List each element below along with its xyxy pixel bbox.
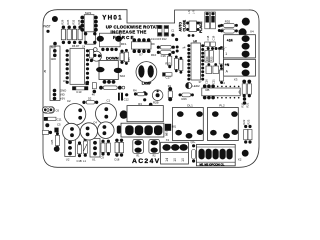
svg-text:881: 881 <box>172 125 177 129</box>
svg-text:C4: C4 <box>93 120 97 124</box>
svg-text:10: 10 <box>173 158 177 162</box>
svg-text:+24: +24 <box>227 39 233 43</box>
resistor R9 <box>151 42 175 49</box>
svg-text:C6: C6 <box>56 109 60 113</box>
resistor D18a <box>115 139 119 157</box>
capacitor C9 <box>101 140 106 160</box>
svg-text:PL2: PL2 <box>219 104 225 108</box>
pad row dot <box>53 42 57 46</box>
svg-text:C15: C15 <box>128 57 131 62</box>
bridge RF1 <box>97 33 127 47</box>
pads left of U6 <box>176 46 179 49</box>
svg-text:M1 M2 OPCON CL: M1 M2 OPCON CL <box>200 162 225 166</box>
inductor L1 <box>83 138 87 163</box>
labels GND VID +5V <box>60 89 66 101</box>
svg-text:CLOSE: CLOSE <box>183 19 187 31</box>
svg-text:RB: RB <box>206 88 210 92</box>
IC U6 <box>187 40 204 85</box>
svg-text:L-R: L-R <box>193 10 196 14</box>
svg-text:X4: X4 <box>250 30 254 34</box>
IC U7 <box>132 38 152 56</box>
capacitor C22 <box>219 67 223 84</box>
mounting hole H5 <box>242 150 249 157</box>
text AUTO CLOSE vertical <box>179 19 187 31</box>
svg-text:PLACE: PLACE <box>199 21 203 33</box>
switch SW2 <box>80 11 97 32</box>
svg-text:D2: D2 <box>88 97 92 101</box>
svg-text:LAMP: LAMP <box>142 82 152 86</box>
resistor R21 <box>246 80 252 108</box>
mounting hole H3 <box>239 28 247 36</box>
resistor R29 <box>60 19 65 44</box>
svg-text:SF2: SF2 <box>120 74 126 78</box>
svg-text:U7: U7 <box>139 52 143 56</box>
svg-text:U1: U1 <box>92 158 96 162</box>
resistor D18b <box>115 139 124 162</box>
resistor RD2 <box>220 20 238 28</box>
svg-text:C18: C18 <box>206 35 210 40</box>
svg-text:R6 R7: R6 R7 <box>72 44 80 48</box>
capacitor C17 <box>163 73 173 80</box>
capacitor C3b <box>51 132 59 148</box>
capacitor C13 <box>72 86 88 94</box>
terminal X3 <box>224 59 256 76</box>
capacitor C1 big <box>96 99 117 125</box>
svg-text:R29: R29 <box>60 19 64 24</box>
transistor Q3 <box>92 51 102 61</box>
svg-text:LED2: LED2 <box>192 84 200 88</box>
svg-text:C9: C9 <box>101 156 105 160</box>
svg-text:C1B: C1B <box>77 159 82 163</box>
svg-text:U2: U2 <box>66 158 70 162</box>
svg-text:R32: R32 <box>72 19 76 24</box>
capacitor C19 <box>211 12 216 46</box>
svg-text:DOWN: DOWN <box>106 55 119 60</box>
svg-text:AC24V: AC24V <box>132 158 160 165</box>
capacitor C15 <box>124 49 131 65</box>
opto U8 square <box>186 10 199 43</box>
capacitor C2 big <box>64 99 86 125</box>
svg-text:R2B: R2B <box>153 100 159 104</box>
svg-text:Q2+: Q2+ <box>191 140 196 144</box>
svg-text:J5: J5 <box>43 70 47 74</box>
pad below PAST <box>46 30 49 33</box>
resistor R14 <box>179 57 183 74</box>
svg-text:R25: R25 <box>209 56 213 61</box>
svg-text:YH01: YH01 <box>102 15 123 22</box>
svg-text:C1: C1 <box>107 99 111 103</box>
svg-text:U4: U4 <box>221 81 225 85</box>
pad P2 <box>143 91 146 94</box>
text UP CLOCKWISE ROTATE INCREASE THE FORCE <box>106 24 162 39</box>
svg-text:X1: X1 <box>166 138 170 142</box>
resistor RD3 <box>220 29 244 33</box>
resistor C7 <box>89 48 97 63</box>
resistor R4 <box>133 88 210 96</box>
svg-text:RF1: RF1 <box>121 42 127 46</box>
resistor R23 <box>247 119 253 143</box>
svg-text:C5: C5 <box>57 122 61 126</box>
svg-text:R4: R4 <box>133 88 137 92</box>
terminal X1 <box>161 138 189 164</box>
terminal X4 <box>224 35 256 58</box>
relay DL1 <box>173 104 204 141</box>
diode D1 <box>168 84 173 101</box>
resistor R3 power <box>127 102 163 122</box>
resistor R10 <box>151 51 175 58</box>
pads under SF2 <box>103 80 107 84</box>
connector U2 <box>65 137 76 162</box>
diode D4 <box>164 26 175 37</box>
pad hole small <box>45 123 49 127</box>
capacitor C5 big <box>57 122 80 140</box>
svg-text:C17: C17 <box>166 76 172 80</box>
svg-text:X3: X3 <box>234 78 238 82</box>
bridge DB2 <box>121 123 168 137</box>
svg-text:X2: X2 <box>238 158 242 162</box>
resistor R32 <box>72 19 77 44</box>
mounting hole H1 <box>52 16 58 22</box>
svg-text:C2B: C2B <box>51 139 54 144</box>
capacitor C1 tantalum <box>120 110 128 118</box>
svg-text:C21: C21 <box>211 79 215 84</box>
capacitor C21 <box>211 63 218 84</box>
connector J5 <box>43 46 60 101</box>
capacitor C7 tantalum <box>117 126 121 134</box>
bridge DB1 <box>165 124 177 137</box>
capacitor C4b big <box>98 122 115 139</box>
capacitor C12 <box>118 93 146 102</box>
mounting hole H4 <box>54 146 60 152</box>
svg-text:+: + <box>166 133 168 137</box>
triac SF2 <box>96 61 125 80</box>
svg-text:14: 14 <box>165 158 169 162</box>
relay DL2 <box>208 104 239 141</box>
capacitor C4 big <box>80 120 97 140</box>
svg-text:U8: U8 <box>194 39 198 43</box>
svg-text:R9: R9 <box>151 42 155 46</box>
pad P3 <box>75 104 79 108</box>
capacitor C20 <box>205 63 212 84</box>
transistor R2 <box>149 140 160 158</box>
board outline <box>43 10 259 168</box>
capacitor C18 <box>205 12 210 46</box>
lamp socket LAMP <box>136 62 157 86</box>
svg-text:DL1: DL1 <box>187 104 193 108</box>
svg-text:C2: C2 <box>67 99 71 103</box>
svg-text:C11: C11 <box>57 118 62 122</box>
resistor R25 <box>66 19 71 44</box>
svg-text:R26: R26 <box>182 97 188 101</box>
resistors R6 R7 labels <box>72 44 86 48</box>
resistor R22 <box>242 119 248 143</box>
transistor R1 <box>133 140 144 158</box>
svg-text:R25: R25 <box>66 19 70 24</box>
IC U4 <box>202 81 240 99</box>
svg-text:GND: GND <box>51 58 57 61</box>
resistor R8 <box>120 50 129 64</box>
svg-text:1: 1 <box>225 52 227 56</box>
svg-text:R13: R13 <box>165 61 171 65</box>
svg-text:C16: C16 <box>161 54 167 58</box>
capacitor D1B <box>106 140 110 156</box>
resistor R26 <box>179 93 194 101</box>
LED2 <box>186 83 200 89</box>
capacitor C2s <box>43 130 53 134</box>
svg-text:L-S: L-S <box>188 10 191 14</box>
svg-text:+N: +N <box>225 63 230 67</box>
resistor R13 <box>165 56 178 73</box>
svg-text:+5V: +5V <box>60 97 65 101</box>
capacitor C6 <box>42 107 59 114</box>
svg-text:FORCE: FORCE <box>113 35 135 40</box>
resistor R20 <box>240 80 246 108</box>
svg-text:PA5T: PA5T <box>51 46 57 49</box>
capacitor C16 <box>161 53 172 68</box>
capacitor C10 <box>77 141 82 162</box>
pads right of U4 <box>243 97 246 100</box>
capacitor C11 <box>44 117 62 122</box>
IC U3 <box>63 48 89 84</box>
pad hole <box>54 128 58 133</box>
diode D8 <box>218 25 225 33</box>
pads under RF1 <box>101 48 104 51</box>
svg-text:C13: C13 <box>76 90 82 94</box>
svg-text:PA5T: PA5T <box>43 25 51 29</box>
resistor D2 <box>82 97 98 104</box>
pad square <box>85 82 88 86</box>
svg-text:C19: C19 <box>212 35 216 40</box>
resistor Q2+ <box>191 140 196 163</box>
svg-text:R10: R10 <box>151 53 157 57</box>
svg-text:C12: C12 <box>124 98 130 102</box>
diode D3 <box>158 26 163 37</box>
trimpot R2B <box>152 90 163 104</box>
pads D-cluster <box>171 34 174 37</box>
svg-text:C20: C20 <box>205 79 209 84</box>
pad P1 <box>149 103 153 107</box>
opto U9 square <box>84 32 97 44</box>
svg-text:U3: U3 <box>63 79 67 83</box>
resistor R24 label <box>205 47 221 62</box>
connector U1 <box>90 139 100 162</box>
svg-text:D18: D18 <box>115 158 120 162</box>
svg-text:R23: R23 <box>247 119 251 124</box>
connector X2 <box>196 145 235 167</box>
resistor R26b <box>77 19 82 44</box>
svg-text:RD2: RD2 <box>225 20 231 24</box>
mounting hole H2 <box>242 18 250 26</box>
svg-text:R22: R22 <box>242 119 246 124</box>
resistor R11 <box>99 86 125 90</box>
svg-text:10: 10 <box>181 158 185 162</box>
resistor R6b <box>92 83 97 97</box>
svg-text:x4: x4 <box>183 46 186 50</box>
svg-text:R24: R24 <box>205 56 209 61</box>
resistor R27 <box>219 46 225 68</box>
svg-text:C14 C15 R12: C14 C15 R12 <box>151 37 167 41</box>
